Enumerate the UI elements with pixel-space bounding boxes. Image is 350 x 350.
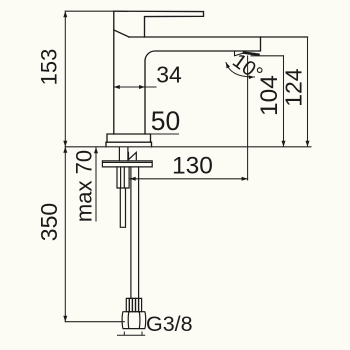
svg-text:350: 350 <box>36 203 62 241</box>
svg-text:130: 130 <box>172 153 213 180</box>
svg-text:50: 50 <box>151 106 180 136</box>
svg-text:153: 153 <box>37 49 62 86</box>
svg-text:max 70: max 70 <box>72 150 97 222</box>
svg-text:124: 124 <box>281 68 307 107</box>
svg-text:34: 34 <box>156 62 182 88</box>
svg-text:G3/8: G3/8 <box>146 312 193 336</box>
svg-text:104: 104 <box>256 75 283 116</box>
